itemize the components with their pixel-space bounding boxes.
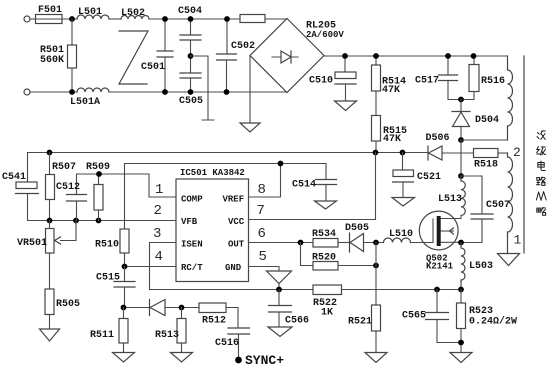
wire pin 4 line bbox=[125, 266, 177, 268]
svg-text:C512: C512 bbox=[56, 182, 80, 193]
ground bbox=[365, 353, 387, 363]
wire gate lead bbox=[411, 242, 434, 244]
secondary omitted note (Chinese) bbox=[536, 131, 546, 215]
svg-text:R518: R518 bbox=[474, 160, 498, 171]
node bbox=[121, 305, 127, 311]
svg-text:COMP: COMP bbox=[181, 195, 203, 205]
inductor L501 bbox=[77, 7, 109, 19]
node bbox=[188, 89, 194, 95]
svg-text:SYNC+: SYNC+ bbox=[245, 353, 284, 366]
ground bbox=[450, 353, 472, 363]
node bbox=[458, 97, 464, 103]
ground bbox=[268, 327, 292, 337]
wire bbox=[30, 18, 36, 20]
node bbox=[458, 287, 464, 293]
node bbox=[276, 287, 282, 293]
node bbox=[278, 161, 284, 167]
capacitor C565 bbox=[402, 290, 461, 343]
wire bbox=[109, 91, 287, 93]
svg-text:F501: F501 bbox=[38, 5, 62, 16]
svg-text:C566: C566 bbox=[285, 316, 309, 327]
resistor R518 bbox=[474, 149, 499, 171]
diode D505 bbox=[345, 223, 369, 252]
node bbox=[373, 150, 379, 156]
svg-text:R507: R507 bbox=[52, 162, 76, 173]
svg-text:D506: D506 bbox=[426, 133, 450, 144]
svg-text:OUT: OUT bbox=[228, 240, 245, 250]
svg-text:C507: C507 bbox=[486, 200, 510, 211]
inductor L510 bbox=[384, 229, 414, 243]
svg-text:VR501: VR501 bbox=[17, 238, 47, 249]
node bbox=[298, 240, 304, 246]
resistor R521 bbox=[348, 243, 381, 353]
node bottom-left bbox=[69, 89, 75, 95]
resistor R514 bbox=[372, 56, 407, 116]
svg-text:C505: C505 bbox=[179, 96, 203, 107]
wire drain lead bbox=[441, 216, 461, 219]
IC U1 IC501 KA3842 bbox=[176, 168, 249, 282]
resistor R522 bbox=[313, 285, 342, 319]
svg-text:2: 2 bbox=[513, 145, 521, 160]
svg-text:C501: C501 bbox=[141, 62, 165, 73]
AC input terminal top bbox=[24, 16, 30, 22]
svg-text:L503: L503 bbox=[469, 261, 493, 272]
svg-text:VCC: VCC bbox=[228, 217, 245, 227]
ground bbox=[240, 123, 260, 132]
svg-text:C516: C516 bbox=[215, 338, 239, 349]
resistor R507 bbox=[46, 153, 77, 221]
svg-text:6: 6 bbox=[258, 226, 266, 242]
node top-left bbox=[69, 16, 75, 22]
transistor Q2 Q502 K2141 MOSFET bbox=[419, 211, 461, 271]
series resistor on line bbox=[240, 15, 265, 23]
svg-text:L513: L513 bbox=[438, 194, 462, 205]
svg-text:ISEN: ISEN bbox=[181, 240, 203, 250]
capacitor C501 bbox=[141, 19, 173, 92]
node bbox=[188, 16, 194, 22]
node bbox=[458, 340, 464, 346]
node bbox=[162, 89, 168, 95]
svg-text:L502: L502 bbox=[121, 8, 145, 19]
wire winding return bbox=[461, 139, 508, 141]
svg-text:VFB: VFB bbox=[181, 217, 198, 227]
svg-text:D505: D505 bbox=[345, 223, 369, 234]
node bbox=[188, 53, 194, 59]
svg-text:1: 1 bbox=[514, 233, 522, 248]
node bbox=[96, 171, 102, 177]
svg-text:3: 3 bbox=[153, 226, 161, 242]
bridge rectifier RL205 bbox=[250, 19, 344, 93]
ground bbox=[498, 254, 520, 266]
wire VFB rail bbox=[50, 220, 177, 222]
resistor R534 bbox=[312, 229, 338, 247]
svg-text:2: 2 bbox=[154, 203, 162, 219]
resistor R513 bbox=[155, 308, 186, 353]
capacitor C504 bbox=[178, 6, 202, 56]
svg-text:5: 5 bbox=[259, 249, 267, 265]
wire bbox=[442, 152, 474, 154]
svg-text:GND: GND bbox=[225, 263, 242, 273]
capacitor C510 bbox=[309, 56, 356, 101]
ground bbox=[171, 353, 193, 363]
svg-text:C517: C517 bbox=[415, 76, 439, 87]
node bbox=[224, 16, 230, 22]
svg-text:R510: R510 bbox=[95, 240, 119, 251]
inductor L513 bbox=[438, 176, 465, 215]
svg-text:R505: R505 bbox=[56, 299, 80, 310]
wire bbox=[30, 91, 77, 93]
svg-text:C515: C515 bbox=[96, 273, 120, 284]
svg-text:1: 1 bbox=[155, 182, 163, 198]
ground bbox=[335, 101, 357, 111]
wire pin5 GND bbox=[249, 267, 280, 290]
wire to winding pin 2 bbox=[498, 152, 508, 154]
node bbox=[179, 305, 185, 311]
svg-text:IC501 KA3842: IC501 KA3842 bbox=[180, 168, 245, 178]
inductor L503 bbox=[461, 243, 493, 290]
svg-text:L501A: L501A bbox=[70, 97, 100, 108]
svg-text:C514: C514 bbox=[292, 180, 316, 191]
AC input terminal bottom bbox=[24, 89, 30, 95]
wire bridge minus to ground bbox=[249, 56, 251, 124]
wire pin6 OUT line bbox=[249, 242, 314, 244]
capacitor C512 bbox=[56, 174, 149, 221]
wire VREF line bbox=[125, 163, 327, 165]
resistor R511 bbox=[90, 308, 128, 353]
svg-text:K2141: K2141 bbox=[426, 262, 454, 272]
node bbox=[373, 263, 379, 269]
svg-text:C565: C565 bbox=[402, 311, 426, 322]
svg-text:D504: D504 bbox=[475, 115, 499, 126]
svg-text:4: 4 bbox=[155, 249, 163, 265]
node bbox=[224, 89, 230, 95]
svg-text:L501: L501 bbox=[78, 7, 102, 18]
ground bbox=[113, 353, 135, 363]
svg-text:C502: C502 bbox=[231, 41, 255, 52]
wire sync line bbox=[124, 307, 150, 309]
diode D504 bbox=[452, 100, 499, 141]
svg-text:0.24Ω/2W: 0.24Ω/2W bbox=[469, 316, 517, 328]
capacitor C521 bbox=[393, 153, 442, 198]
ground bbox=[40, 329, 60, 341]
node bbox=[73, 218, 79, 224]
wire bbox=[364, 242, 384, 244]
resistor R510 bbox=[95, 164, 129, 267]
wire + rail bbox=[324, 55, 508, 57]
node bbox=[458, 137, 464, 143]
wire bbox=[338, 242, 350, 244]
svg-text:R520: R520 bbox=[312, 253, 336, 264]
capacitor C505 bbox=[179, 56, 203, 107]
node bbox=[471, 53, 477, 59]
resistor R523 bbox=[457, 290, 518, 353]
resistor R520 (parallel with R534) bbox=[301, 243, 377, 271]
capacitor C502 bbox=[217, 19, 256, 92]
potentiometer VR501 bbox=[17, 221, 76, 290]
svg-text:R513: R513 bbox=[155, 330, 179, 341]
resistor R515 bbox=[372, 116, 408, 153]
node bbox=[400, 150, 406, 156]
wire D504 node down bbox=[460, 140, 462, 176]
diode D506 bbox=[426, 133, 450, 160]
node bbox=[342, 53, 348, 59]
node bbox=[458, 173, 464, 179]
capacitor C566 bbox=[269, 290, 310, 328]
inductor L501A bbox=[70, 88, 109, 108]
node bbox=[373, 53, 379, 59]
wire pin8 riser bbox=[249, 164, 281, 198]
choke core Z symbol bbox=[119, 31, 148, 84]
svg-text:2A/600V: 2A/600V bbox=[306, 30, 344, 40]
wire bbox=[109, 18, 121, 20]
node SYNC+ bbox=[235, 357, 242, 364]
resistor R509 bbox=[86, 162, 110, 221]
transformer primary winding top (pin to +rail) bbox=[508, 56, 513, 140]
capacitor C507 bbox=[461, 176, 510, 243]
wire bbox=[342, 289, 462, 291]
node bbox=[96, 218, 102, 224]
node bbox=[47, 150, 53, 156]
inductor L502 bbox=[121, 8, 149, 19]
diode (sync) bbox=[150, 300, 166, 316]
capacitor C515 bbox=[96, 267, 135, 308]
wire bbox=[62, 18, 77, 20]
node bbox=[373, 240, 379, 246]
resistor R501 bbox=[40, 19, 77, 92]
svg-text:R511: R511 bbox=[90, 330, 114, 341]
svg-text:47K: 47K bbox=[382, 85, 400, 96]
wire pin3 ISEN path bbox=[150, 243, 314, 290]
svg-text:R534: R534 bbox=[312, 229, 336, 240]
fuse F501 bbox=[36, 5, 63, 24]
node bbox=[445, 53, 451, 59]
svg-text:8: 8 bbox=[258, 182, 266, 198]
capacitor C516 bbox=[215, 308, 250, 361]
wire to pin 1 bbox=[149, 174, 176, 197]
capacitor C517 bbox=[415, 56, 461, 100]
wire bbox=[265, 18, 287, 20]
wire stub from C504/C505 midpoint bbox=[191, 56, 215, 120]
svg-text:R523: R523 bbox=[469, 306, 493, 317]
wire VCC rail bbox=[28, 152, 429, 154]
transformer core bbox=[523, 56, 525, 253]
capacitor C514 bbox=[292, 164, 337, 202]
svg-text:47K: 47K bbox=[383, 134, 401, 145]
svg-text:R516: R516 bbox=[481, 76, 505, 87]
resistor R512 bbox=[199, 303, 226, 327]
node bbox=[122, 264, 128, 270]
resistor R505 bbox=[45, 289, 80, 329]
svg-text:L510: L510 bbox=[389, 229, 413, 240]
svg-text:R512: R512 bbox=[202, 316, 226, 327]
ground bbox=[315, 201, 337, 209]
svg-text:R521: R521 bbox=[348, 317, 372, 328]
svg-text:C541: C541 bbox=[2, 172, 26, 183]
wire bbox=[149, 18, 240, 20]
node bbox=[162, 16, 168, 22]
node source bbox=[458, 240, 464, 246]
ground bbox=[392, 198, 415, 207]
resistor R516 bbox=[461, 56, 505, 100]
node bbox=[434, 287, 440, 293]
svg-text:C510: C510 bbox=[309, 76, 333, 87]
svg-text:C504: C504 bbox=[178, 6, 202, 17]
wire bbox=[165, 307, 199, 309]
capacitor C541 bbox=[2, 153, 50, 221]
transformer primary winding lower bbox=[508, 153, 513, 254]
node bbox=[47, 218, 53, 224]
svg-text:C521: C521 bbox=[417, 172, 441, 183]
svg-text:560K: 560K bbox=[40, 55, 64, 66]
wire pin7 VCC riser bbox=[249, 153, 376, 220]
svg-text:VREF: VREF bbox=[223, 195, 245, 205]
svg-text:1K: 1K bbox=[321, 308, 333, 319]
svg-text:7: 7 bbox=[257, 203, 265, 219]
ground at pin 5 bbox=[267, 271, 292, 284]
svg-text:RC/T: RC/T bbox=[181, 263, 203, 273]
